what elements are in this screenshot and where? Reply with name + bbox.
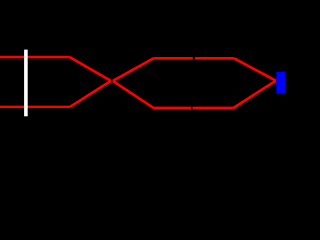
wire: lower converging diagonal to detector (234, 81, 276, 108)
wire: hexagon bottom horizontal left segment (154, 107, 192, 110)
wire: upper converging diagonal to focus (70, 57, 111, 81)
wire: hexagon bottom horizontal right segment (193, 107, 234, 110)
wire: lower converging diagonal to focus (70, 81, 111, 107)
slit (white aperture bar) (24, 50, 28, 117)
wire: hexagon top horizontal right segment (195, 57, 234, 60)
wire: top-left horizontal ray (0, 56, 70, 58)
wire: hexagon top horizontal left segment (154, 57, 193, 60)
wire: upper diverging diagonal from focus (113, 58, 154, 81)
wire: bottom-left horizontal ray (0, 106, 70, 108)
wire: lower diverging diagonal from focus (113, 81, 154, 108)
wire: upper converging diagonal to detector (234, 58, 276, 80)
detector D1 (blue) (276, 72, 285, 94)
